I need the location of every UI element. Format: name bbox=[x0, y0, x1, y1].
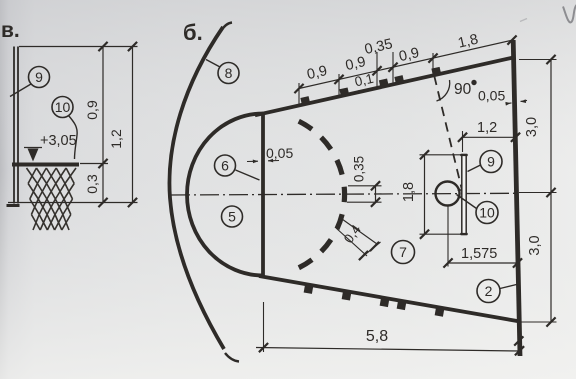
callout 9 (plan) bbox=[480, 151, 502, 173]
svg-text:6: 6 bbox=[221, 158, 229, 174]
90 degree dashed perpendicular bbox=[434, 76, 462, 190]
dim 0,35 (dash length at axis) bbox=[348, 185, 382, 187]
svg-text:10: 10 bbox=[479, 205, 495, 221]
blocks on top lane line bbox=[300, 67, 441, 105]
rim to board bracket bbox=[458, 190, 465, 197]
backboard bottom foot bbox=[7, 204, 20, 207]
svg-text:3,0: 3,0 bbox=[527, 235, 543, 255]
callout 5 bbox=[222, 206, 243, 227]
extension line bottom bbox=[8, 202, 138, 204]
pencil squiggle top right bbox=[563, 5, 576, 22]
svg-text:90: 90 bbox=[454, 81, 472, 98]
svg-text:2: 2 bbox=[485, 283, 493, 299]
backboard (side view, double line) bbox=[13, 47, 15, 204]
svg-text:9: 9 bbox=[487, 154, 495, 170]
net bbox=[27, 168, 77, 230]
callout 6 with 0,05 bbox=[215, 155, 236, 176]
free-throw semicircle dashed bbox=[299, 121, 345, 268]
arc end hook top bbox=[221, 23, 232, 32]
rim (side view) bbox=[12, 163, 79, 167]
callout 7 bbox=[392, 241, 415, 264]
svg-text:0,05: 0,05 bbox=[478, 88, 505, 104]
dim 1,575 bbox=[447, 207, 449, 267]
top lane line bbox=[255, 57, 515, 115]
svg-text:9: 9 bbox=[35, 69, 43, 85]
svg-text:5: 5 bbox=[228, 209, 236, 225]
callout 8 bbox=[218, 63, 239, 84]
blocks on bottom lane line bbox=[304, 286, 444, 317]
extension line top (left fig) bbox=[19, 46, 138, 48]
callout 2 bbox=[477, 280, 500, 303]
dim 1,8 vertical (backboard width) bbox=[420, 154, 462, 156]
three-point arc (8) bbox=[169, 27, 224, 349]
free-throw semicircle solid (5) bbox=[187, 114, 263, 276]
free-throw line bbox=[261, 113, 265, 278]
dimension chain line (top) bbox=[299, 40, 513, 88]
svg-text:0,9: 0,9 bbox=[84, 100, 100, 120]
dim 1,2 (board to baseline) bbox=[463, 136, 517, 138]
svg-text:0,05: 0,05 bbox=[266, 145, 293, 161]
dim 5,8 bottom bbox=[263, 302, 265, 352]
backboard (plan) bbox=[462, 155, 466, 235]
svg-text:8: 8 bbox=[225, 65, 233, 81]
svg-text:7: 7 bbox=[399, 244, 407, 260]
svg-text:5,8: 5,8 bbox=[366, 328, 388, 345]
callout 10 (left) bbox=[52, 97, 73, 118]
callout 10 (plan) bbox=[476, 202, 498, 224]
extension lines from lane to chain bbox=[299, 52, 433, 105]
svg-text:1,575: 1,575 bbox=[461, 246, 497, 262]
svg-text:10: 10 bbox=[55, 99, 71, 115]
bottom lane line bbox=[259, 276, 520, 322]
svg-text:в.: в. bbox=[1, 19, 20, 42]
svg-text:1,2: 1,2 bbox=[477, 120, 497, 136]
svg-text:1,2: 1,2 bbox=[108, 129, 124, 149]
svg-text:1,8: 1,8 bbox=[401, 182, 417, 202]
svg-text:3,0: 3,0 bbox=[524, 117, 540, 137]
dimension line 1,2 bbox=[132, 47, 134, 203]
90 degree angle arc bbox=[437, 80, 450, 101]
arc end hook bottom bbox=[225, 353, 239, 362]
svg-text:0,3: 0,3 bbox=[84, 174, 100, 194]
dim 3,0 (top) and 3,0 (bottom) right side bbox=[519, 59, 557, 61]
svg-text:б.: б. bbox=[183, 20, 203, 45]
extension line rim level bbox=[80, 163, 108, 165]
svg-text:+3,05: +3,05 bbox=[40, 133, 77, 149]
faint mark top right small bbox=[520, 19, 527, 22]
end line (baseline) bbox=[513, 40, 520, 356]
rim circle (plan) bbox=[436, 182, 460, 206]
dim 0,4 (dash length lower) bbox=[342, 219, 377, 244]
svg-text:0,35: 0,35 bbox=[352, 156, 367, 182]
callout 9 (left) bbox=[29, 67, 50, 88]
center axis line bbox=[171, 193, 516, 195]
dimension line 0,9 / 0,3 bbox=[102, 47, 104, 203]
